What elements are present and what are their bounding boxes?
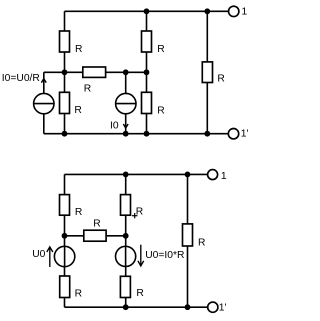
- svg-text:R: R: [75, 207, 82, 218]
- resistor R1 (upper circuit, column B top): [60, 31, 70, 52]
- junction: middle link / column F: [62, 233, 68, 239]
- resistor R2 (upper circuit, column D top): [142, 31, 152, 52]
- svg-text:U0: U0: [32, 249, 45, 260]
- wire: column B vertical (upper circuit left branch): [64, 11, 66, 133]
- svg-text:R: R: [84, 84, 91, 95]
- wire: current source I0=U0/R branch vertical: [43, 72, 45, 133]
- wire: column H vertical (lower circuit right branch): [187, 174, 189, 307]
- resistor R7 (lower circuit, column F top): [60, 195, 70, 216]
- junction: lower top bus / column G: [123, 172, 129, 178]
- junction: top bus / column E: [204, 8, 210, 14]
- junction: lower bottom bus / column G: [123, 304, 129, 310]
- junction: lower bottom bus / column H: [185, 304, 191, 310]
- voltage arrow up (source U0): [47, 247, 53, 267]
- wire: current source I0 branch vertical: [125, 72, 127, 133]
- terminal 1' (lower circuit): [208, 302, 218, 312]
- svg-text:1: 1: [242, 7, 248, 18]
- junction: middle link / column G: [123, 233, 129, 239]
- svg-text:1': 1': [241, 129, 249, 140]
- current source U2: I0 (upper circuit middle): [116, 93, 136, 113]
- wire: bottom bus of lower circuit: [65, 306, 208, 308]
- junction: middle bus / column B: [62, 69, 68, 75]
- resistor R9 (lower circuit, horizontal middle link): [84, 230, 106, 241]
- junction: middle bus / column C: [123, 69, 129, 75]
- junction: bottom bus / column D: [144, 131, 150, 137]
- svg-text:R: R: [157, 44, 164, 55]
- junction: bottom bus / column B: [62, 131, 68, 137]
- voltage source U3: U0 (lower circuit left): [54, 246, 74, 266]
- resistor R3 (upper circuit, horizontal on middle bus): [83, 67, 106, 77]
- svg-text:R: R: [74, 105, 81, 116]
- junction: bottom bus / column E: [204, 131, 210, 137]
- voltage arrow down (source U0=I0*R): [138, 245, 144, 266]
- svg-text:1: 1: [221, 171, 227, 182]
- wire: column F vertical (lower circuit left branch): [64, 174, 66, 307]
- resistor R6 (upper circuit, column E): [202, 62, 212, 83]
- wire: top bus of upper circuit: [65, 10, 229, 12]
- wire: bottom bus of upper circuit: [44, 133, 229, 135]
- svg-text:R: R: [217, 74, 224, 85]
- wire: top bus of lower circuit: [65, 173, 208, 175]
- current source U1: I0=U0/R (upper circuit left): [34, 93, 54, 113]
- svg-text:R: R: [75, 289, 82, 300]
- resistor R4 (upper circuit, column B bottom): [60, 92, 70, 113]
- junction: lower top bus / column H: [185, 172, 191, 178]
- resistor R5 (upper circuit, column D bottom): [142, 92, 152, 113]
- svg-text:I0: I0: [110, 120, 119, 131]
- wire: column E vertical (upper circuit right branch): [206, 11, 208, 133]
- terminal 1 (upper circuit): [229, 6, 239, 16]
- wire: column G vertical (lower circuit middle branch): [125, 174, 127, 307]
- svg-text:I0=U0/R: I0=U0/R: [2, 73, 40, 84]
- terminal 1 (lower circuit): [208, 170, 218, 180]
- current arrow up (source I0=U0/R): [41, 79, 46, 83]
- svg-text:R: R: [198, 238, 205, 249]
- svg-text:R: R: [75, 44, 82, 55]
- wire: middle bus of upper circuit: [44, 71, 147, 73]
- wire: middle link of lower circuit: [65, 235, 126, 237]
- junction: top bus / column D: [144, 8, 150, 14]
- terminal 1' (upper circuit): [228, 129, 238, 139]
- resistor R11 (lower circuit, column G bottom): [120, 276, 130, 297]
- resistor R10 (lower circuit, column F bottom): [60, 276, 70, 298]
- junction: middle bus / column D: [144, 69, 150, 75]
- stray plus mark near R8 label: [132, 213, 137, 218]
- svg-text:R: R: [93, 218, 100, 229]
- resistor R8 (lower circuit, column G top): [121, 195, 131, 216]
- wire: column D vertical (upper circuit middle branch): [146, 11, 148, 133]
- svg-text:R: R: [136, 288, 143, 299]
- current arrow down (source I0): [123, 124, 128, 128]
- voltage source U4: U0=I0*R (lower circuit middle): [116, 246, 136, 266]
- resistor R12 (lower circuit, column H): [183, 224, 193, 246]
- svg-text:U0=I0*R: U0=I0*R: [145, 250, 184, 261]
- junction: bottom bus / column C: [123, 131, 129, 137]
- svg-text:R: R: [157, 105, 164, 116]
- svg-text:1': 1': [219, 302, 227, 313]
